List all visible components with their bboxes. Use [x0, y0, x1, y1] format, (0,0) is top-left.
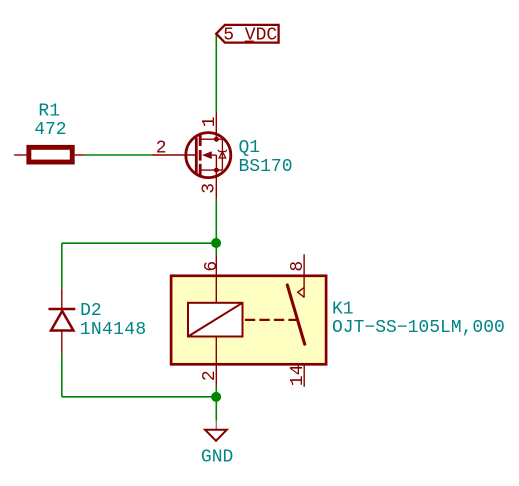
svg-text:3: 3	[200, 183, 220, 194]
svg-text:GND: GND	[201, 447, 233, 467]
svg-text:8: 8	[288, 261, 308, 272]
svg-text:14: 14	[288, 364, 308, 386]
svg-text:Q1: Q1	[239, 138, 261, 158]
svg-text:472: 472	[34, 120, 66, 140]
svg-text:1N4148: 1N4148	[80, 320, 147, 340]
svg-text:6: 6	[202, 261, 222, 272]
svg-text:5 VDC: 5 VDC	[223, 26, 277, 46]
svg-text:2: 2	[156, 139, 167, 159]
svg-text:OJT−SS−105LM,000: OJT−SS−105LM,000	[332, 318, 505, 338]
svg-text:2: 2	[200, 370, 220, 381]
svg-text:R1: R1	[38, 101, 60, 121]
svg-text:K1: K1	[332, 300, 354, 320]
svg-text:BS170: BS170	[239, 157, 293, 177]
svg-text:D2: D2	[80, 301, 102, 321]
svg-text:1: 1	[200, 116, 220, 127]
